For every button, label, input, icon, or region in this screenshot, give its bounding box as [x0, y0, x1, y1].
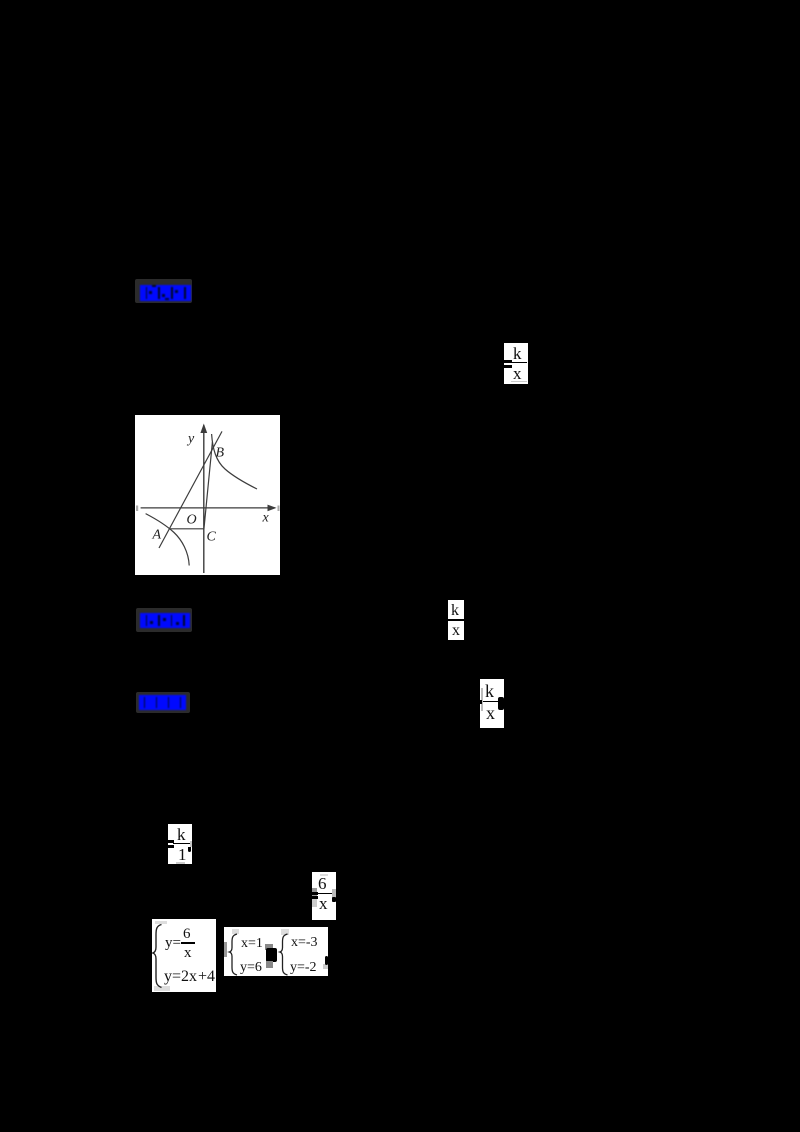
svg-text:C: C: [207, 530, 217, 545]
line AB: [159, 431, 222, 548]
equation image 4: = k/1,: [168, 824, 192, 864]
y axis: [203, 425, 205, 573]
svg-text:y: y: [186, 432, 195, 447]
svg-text:x: x: [262, 511, 270, 526]
edge ticks: [136, 506, 138, 512]
svg-text:A: A: [152, 528, 162, 543]
figure graph: [135, 415, 280, 575]
svg-text:O: O: [187, 513, 197, 528]
system 2: { x=1 y=6 or { x=-3 y=-2 ,: [224, 927, 328, 976]
system 1: { y=6/x ; y=2x+4: [152, 919, 216, 992]
x axis: [141, 507, 275, 509]
badge analysis: [136, 608, 192, 632]
segment AC: [170, 528, 204, 530]
equation image 5: = 6/x,: [312, 872, 336, 920]
line BC: [204, 442, 213, 529]
hyperbola Q1: [212, 434, 257, 489]
badge answer: [135, 279, 192, 303]
badge detail: [136, 692, 190, 713]
equation image 1: = k/x: [504, 343, 528, 384]
hyperbola Q3: [146, 514, 190, 566]
svg-text:B: B: [216, 446, 225, 461]
equation image 3: k/x: [480, 679, 504, 728]
equation image 2: k/x: [448, 600, 464, 640]
